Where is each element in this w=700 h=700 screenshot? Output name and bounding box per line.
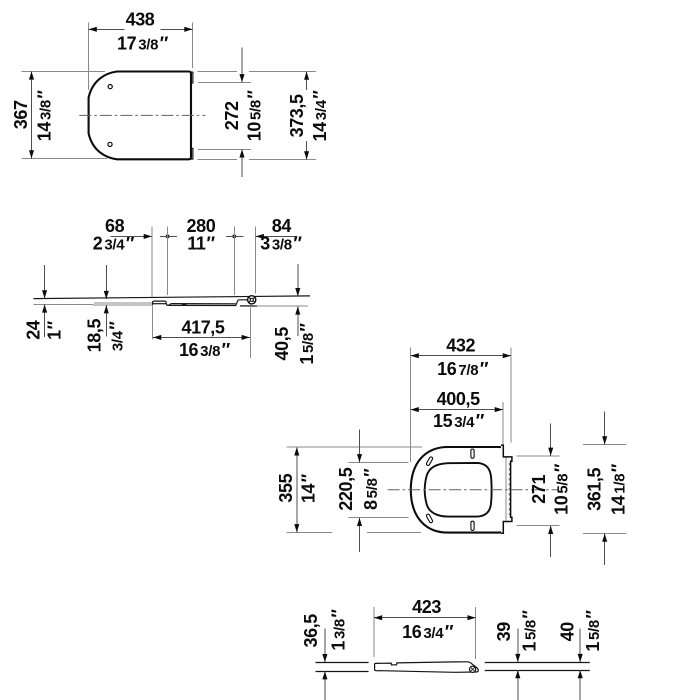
dimension 40	[558, 610, 604, 700]
dimension 367	[11, 71, 107, 158]
svg-text:271: 271	[529, 475, 549, 504]
svg-text:361,5: 361,5	[584, 467, 604, 510]
dimension 24	[23, 265, 64, 340]
svg-text:40: 40	[558, 622, 578, 642]
svg-text:39: 39	[494, 622, 514, 642]
svg-text:143/4″: 143/4″	[310, 90, 330, 142]
hinge notch top	[191, 72, 193, 84]
hinge screw disc	[470, 666, 476, 672]
seat opening	[425, 463, 492, 517]
svg-text:355: 355	[276, 473, 296, 502]
dimension 40,5	[272, 264, 317, 365]
rear bottom line	[257, 305, 308, 307]
dimension 373,5	[198, 72, 331, 160]
svg-text:15/8″: 15/8″	[583, 610, 603, 652]
svg-text:11″: 11″	[187, 234, 215, 254]
svg-text:143/8″: 143/8″	[35, 90, 55, 142]
bumper slot bottom-right	[471, 521, 474, 530]
svg-text:15/8″: 15/8″	[297, 323, 317, 365]
dimension 432	[411, 336, 511, 462]
seat hinge profile	[236, 300, 248, 306]
svg-text:68: 68	[105, 216, 125, 236]
svg-text:173/8″: 173/8″	[117, 34, 169, 54]
right reference lines	[485, 662, 590, 664]
centerline view1	[79, 114, 205, 116]
bumper slot top-left	[426, 456, 433, 466]
front bottom line	[33, 303, 152, 306]
hole top	[108, 85, 112, 89]
dimension 417,5	[153, 306, 251, 360]
svg-text:18,5: 18,5	[84, 318, 104, 352]
dimension 271	[516, 424, 571, 557]
dimension 355	[276, 447, 422, 532]
svg-text:432: 432	[446, 336, 475, 356]
hole bottom	[108, 142, 112, 146]
svg-text:36,5: 36,5	[301, 614, 321, 648]
seat profile body	[172, 303, 236, 305]
svg-text:3/4″: 3/4″	[107, 321, 127, 351]
hinge disc	[248, 296, 256, 304]
svg-text:105/8″: 105/8″	[245, 90, 265, 142]
hinge plate	[501, 445, 512, 533]
svg-text:423: 423	[412, 597, 441, 617]
svg-text:15/8″: 15/8″	[520, 610, 540, 652]
svg-text:272: 272	[222, 101, 242, 130]
dimension 36,5	[301, 609, 349, 700]
svg-text:14″: 14″	[299, 473, 319, 503]
dimension 438	[89, 9, 193, 90]
bumper slot bottom-left	[426, 514, 433, 524]
svg-text:438: 438	[126, 9, 155, 29]
svg-text:417,5: 417,5	[181, 318, 224, 338]
centerline view3	[388, 489, 558, 491]
dimension 361,5	[583, 412, 628, 565]
parting line	[94, 302, 152, 304]
left reference lines	[316, 662, 369, 664]
dimension 18,5	[84, 265, 126, 352]
dimension 272	[198, 47, 265, 177]
svg-text:13/8″: 13/8″	[329, 609, 349, 651]
svg-text:373,5: 373,5	[287, 94, 307, 137]
lid top line	[33, 296, 310, 299]
dimension 400,5	[411, 389, 503, 445]
svg-text:33/8″: 33/8″	[260, 234, 302, 254]
lid outline	[89, 72, 191, 160]
svg-text:153/4″: 153/4″	[433, 411, 485, 431]
svg-text:220,5: 220,5	[336, 467, 356, 510]
seat front bumper	[153, 301, 172, 305]
svg-text:141/8″: 141/8″	[608, 463, 628, 515]
svg-text:40,5: 40,5	[272, 327, 292, 361]
svg-text:400,5: 400,5	[437, 389, 480, 409]
seat ring profile	[375, 662, 479, 673]
svg-text:85/8″: 85/8″	[361, 468, 381, 510]
dimension 423	[374, 597, 476, 659]
svg-text:167/8″: 167/8″	[437, 359, 489, 379]
dimension 220,5	[336, 430, 408, 553]
svg-text:1″: 1″	[44, 320, 64, 340]
seat ring outline	[411, 447, 503, 533]
svg-text:163/4″: 163/4″	[402, 622, 454, 642]
bumper slot top-right	[471, 449, 474, 458]
svg-text:163/8″: 163/8″	[179, 340, 231, 360]
svg-text:367: 367	[11, 100, 31, 129]
svg-text:84: 84	[272, 216, 292, 236]
hinge plate inner edge	[505, 458, 507, 521]
svg-text:24: 24	[23, 320, 43, 340]
hinge plate serration	[508, 463, 510, 516]
dimension 39	[494, 610, 540, 700]
dimension chain 68/280/84	[93, 216, 303, 297]
hinge notch bottom	[191, 148, 193, 159]
svg-text:105/8″: 105/8″	[551, 463, 571, 515]
